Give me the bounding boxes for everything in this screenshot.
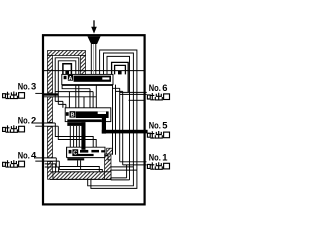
right top loop 2 [104, 53, 134, 167]
A bore box outline [62, 74, 113, 84]
B output thick elbow vertical [81, 122, 85, 150]
extra legs above B bore [69, 85, 96, 108]
svg-text:No.: No. [149, 82, 161, 93]
吐出口 for No.3 [3, 92, 10, 99]
right long verticals [113, 88, 116, 155]
A label box [68, 75, 73, 81]
full width bore-A top line [44, 70, 144, 72]
C below staircase [78, 160, 81, 169]
band bottom link right [111, 178, 130, 180]
No.3 thick line [44, 93, 59, 95]
No.4 wrap down [56, 158, 59, 170]
C bar dash 2 [91, 150, 99, 153]
pilot blob in right chamber [118, 71, 122, 75]
C small square [69, 150, 72, 154]
No.6 channel lines [120, 92, 147, 94]
left inner chamber box [63, 64, 72, 75]
hatched left wall leg upper [48, 56, 53, 94]
B piston bar [76, 111, 109, 118]
B bore box outline [65, 108, 111, 122]
No.2 wrap down to C [55, 123, 96, 147]
hatched left wall segment 3 [48, 127, 53, 158]
B bar notch [98, 112, 106, 114]
inlet funnel [87, 36, 100, 44]
No.3 leader [35, 92, 44, 94]
No.1 channel lines [120, 162, 147, 165]
A bore bottom double line [62, 84, 113, 86]
svg-text:5: 5 [162, 120, 167, 131]
hatched small block right of C spool [107, 148, 113, 154]
distributor valve cross-section diagram [0, 0, 178, 228]
吐出口 for No.2 [3, 125, 10, 132]
No.5 leader [148, 132, 151, 134]
A small square [64, 76, 67, 79]
吐出口 for No.6 [147, 93, 154, 100]
C box left edge [66, 147, 68, 157]
right top loop 3 [107, 56, 130, 179]
A bar notch [102, 77, 109, 79]
吐出口 for No.4 [3, 160, 10, 167]
svg-text:1: 1 [162, 151, 167, 162]
hatched vertical band below C row [105, 154, 111, 179]
bottom lines [88, 167, 134, 186]
staircase B to C thin legs [70, 126, 79, 147]
C bar top [80, 150, 88, 153]
svg-text:No.: No. [149, 151, 161, 162]
right top inner chamber [115, 65, 126, 74]
svg-text:No.: No. [18, 81, 30, 92]
svg-text:A: A [68, 76, 72, 82]
C bar bottom [72, 154, 93, 156]
left wrap No.3 to B: verticals [63, 101, 66, 107]
C bar dash 3 [101, 150, 105, 152]
B small square [66, 112, 69, 116]
inlet bore center line [93, 44, 95, 74]
B bottom strip [67, 119, 102, 121]
B label box [70, 111, 76, 117]
left wrap No.3 to B: horizontals [55, 101, 66, 104]
svg-text:4: 4 [31, 150, 37, 161]
吐出口 for No.5 [147, 131, 154, 138]
svg-text:6: 6 [162, 82, 167, 93]
gap left of A label [67, 76, 68, 82]
hatched bottom band [53, 172, 111, 180]
B output thick elbow horizontal [67, 122, 85, 126]
C thick bottom strip [67, 158, 84, 160]
hatched left wall segment 4 + bottom elbow [48, 162, 54, 180]
bottom band outlines [50, 172, 111, 180]
A piston bar [74, 76, 111, 82]
No.2 channel lines [35, 123, 58, 126]
C bore box outline [67, 147, 111, 160]
bottom channel pair B [59, 167, 102, 172]
right top loop 1 [100, 50, 137, 170]
bottom left channel pair A [45, 164, 59, 172]
hatched top band of left inverted-U wall [48, 51, 86, 56]
svg-text:No.: No. [149, 120, 161, 131]
inlet bore walls [91, 44, 96, 74]
pilot blob in left chamber [65, 71, 69, 75]
right of band channel pair [111, 167, 137, 170]
svg-text:No.: No. [18, 150, 30, 161]
hatched right leg of left inverted-U [81, 56, 86, 75]
svg-text:2: 2 [31, 115, 36, 126]
right top loop 4 [112, 62, 129, 92]
No.5 thick line [102, 130, 148, 134]
right wall inner line [129, 99, 144, 101]
B elbow vertical [102, 116, 106, 134]
staircase A to No.6 right [113, 85, 123, 92]
svg-text:B: B [70, 113, 74, 119]
No.4 channel lines [35, 158, 59, 161]
hatched left wall segment 2 [48, 97, 53, 122]
staircase A to B left [55, 85, 93, 108]
svg-text:C: C [73, 151, 77, 157]
left top loop 3 [58, 61, 76, 105]
left top loop 2 [55, 58, 79, 102]
C label box [72, 149, 78, 155]
thin line below No.3 port [44, 96, 96, 98]
svg-text:No.: No. [18, 115, 30, 126]
svg-text:3: 3 [31, 81, 36, 92]
吐出口 for No.1 [147, 162, 154, 169]
